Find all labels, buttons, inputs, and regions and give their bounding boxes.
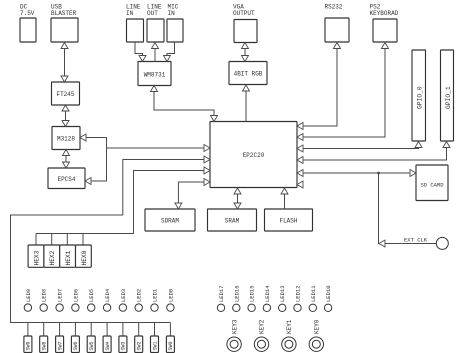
svg-text:LED14: LED14 (264, 285, 271, 302)
svg-text:KEYBORAD: KEYBORAD (370, 10, 399, 17)
arrow into PS2 KEYBORAD (382, 43, 389, 49)
connector PS2 keyboard port (373, 19, 397, 42)
arrow into EP2C20 left 2 (204, 156, 210, 163)
svg-text:HEX2: HEX2 (49, 250, 56, 265)
arrow into FT245 bottom (62, 105, 69, 111)
arrow into WM8731 top right (164, 56, 171, 62)
wire M3128-EPCS4 config loop (80, 138, 107, 182)
arrow into SRAM (234, 203, 241, 209)
svg-text:SDRAM: SDRAM (161, 218, 179, 225)
arrow into EP2C20 bottom from FLASH (281, 188, 288, 194)
svg-text:LED2: LED2 (136, 289, 143, 302)
LED indicator LED14 (263, 304, 270, 311)
connector RS232 port (325, 18, 349, 42)
svg-text:LED1: LED1 (152, 288, 159, 302)
display HEX1 (60, 245, 76, 267)
svg-text:KEY0: KEY0 (314, 319, 321, 334)
arrow into M3128 bottom (63, 150, 70, 156)
wire stub to SW0 (169, 323, 171, 337)
arrow into EP2C20 left 4 (204, 179, 210, 186)
memory FLASH (265, 209, 313, 231)
svg-text:LED9: LED9 (25, 289, 32, 302)
svg-text:SRAM: SRAM (225, 218, 240, 225)
arrow into EP2C20 bottom (234, 188, 241, 194)
header GPIO_1 (441, 50, 454, 141)
svg-text:SD CARD: SD CARD (420, 182, 444, 189)
arrow into EP2C20 right 2 (297, 134, 303, 141)
svg-text:HEX3: HEX3 (33, 250, 40, 265)
LED indicator LED16 (233, 304, 240, 311)
wire VGA to 4BIT RGB (244, 43, 246, 62)
arrow into WM8731 bottom (151, 86, 158, 92)
wire FLASH to EP2C20 (284, 188, 286, 209)
wire EP2C20 to 4BIT RGB (245, 85, 247, 122)
wire stub to SW4 (106, 323, 108, 337)
connector J1 DC power jack (20, 18, 36, 42)
wire stub to HEX1 (66, 234, 68, 246)
chip FT245 (52, 82, 80, 105)
wire stub to SW2 (138, 323, 140, 337)
arrow into 4BIT RGB bottom (243, 85, 250, 91)
svg-text:M3128: M3128 (57, 136, 75, 143)
wire stub to SW3 (122, 323, 124, 337)
svg-text:LED11: LED11 (310, 285, 317, 302)
CPLD M3128 (52, 127, 80, 150)
svg-text:LED10: LED10 (325, 285, 332, 302)
display HEX2 (44, 245, 60, 267)
svg-text:EPCS4: EPCS4 (57, 176, 75, 183)
wire config to EP2C20 (107, 147, 211, 149)
wire stub to HEX2 (51, 234, 53, 246)
switch SW5 (87, 336, 95, 353)
wire FT245 to M3128 (65, 105, 67, 127)
arrow into M3128 top (62, 121, 69, 127)
arrow into GPIO_1 (443, 142, 450, 148)
svg-text:KEY3: KEY3 (231, 319, 238, 334)
wire stub to SW9 (27, 323, 29, 337)
arrow into EP2C20 top (211, 116, 218, 122)
LED indicator LED6 (72, 304, 79, 311)
LED indicator LED5 (88, 304, 95, 311)
switch SW4 (103, 336, 111, 353)
connector MIC IN jack (167, 19, 183, 42)
connector USB BLASTER port (51, 18, 78, 42)
header GPIO_0 (412, 50, 426, 141)
wire M3128 to EPCS4 (65, 150, 67, 169)
svg-text:LED5: LED5 (88, 289, 95, 302)
connector LINE OUT jack (147, 19, 164, 42)
wire MIC IN to WM8731 (167, 42, 175, 62)
LED indicator LED0 (167, 304, 174, 311)
push button KEY0 (309, 337, 323, 351)
arrow into EP2C20 right 5 (297, 170, 303, 177)
svg-text:SW8: SW8 (42, 341, 48, 350)
svg-text:GPIO_1: GPIO_1 (445, 86, 452, 109)
push button KEY3 (227, 337, 241, 351)
LED indicator LED1 (151, 304, 158, 311)
svg-text:SW5: SW5 (89, 341, 95, 350)
LED indicator LED15 (248, 304, 255, 311)
switch SW8 (40, 336, 48, 353)
wire EP2C20 to SD CARD (297, 172, 416, 174)
LED indicator LED3 (119, 304, 126, 311)
svg-text:OUTPUT: OUTPUT (233, 10, 255, 17)
svg-text:IN: IN (168, 10, 176, 17)
svg-text:HEX1: HEX1 (65, 250, 72, 265)
svg-text:LED17: LED17 (218, 285, 225, 302)
push button KEY2 (254, 337, 268, 351)
svg-text:LED3: LED3 (120, 289, 127, 302)
wire stub to SW7 (59, 323, 61, 337)
arrow EXT CLK into node (379, 240, 385, 247)
svg-text:EP2C20: EP2C20 (243, 152, 265, 159)
svg-text:LED12: LED12 (295, 285, 302, 302)
wire EP2C20 to GPIO_0 (297, 142, 419, 149)
wire EP2C20 to RS232 (297, 43, 337, 127)
svg-text:OUT: OUT (147, 10, 158, 17)
wire EP2C20 to SRAM (237, 188, 239, 209)
wire LINE IN to WM8731 (135, 42, 143, 62)
arrow into GPIO_0 (415, 142, 422, 148)
arrow into EP2C20 left 3 (204, 167, 210, 174)
svg-text:LED4: LED4 (104, 288, 111, 302)
LED indicator LED13 (279, 304, 286, 311)
svg-text:SW2: SW2 (137, 341, 143, 350)
wire EP2C20 to SDRAM (178, 182, 210, 209)
svg-text:LED15: LED15 (249, 285, 256, 302)
switch SW3 (119, 336, 127, 353)
arrow into EP2C20 right 6 (297, 181, 303, 188)
connector LINE IN jack (127, 19, 144, 42)
display HEX3 (28, 245, 44, 267)
LED indicator LED12 (294, 304, 301, 311)
connector VGA OUTPUT (234, 20, 257, 43)
display HEX0 (76, 245, 92, 267)
arrow into SD CARD (410, 170, 416, 177)
DAC 4BIT RGB (229, 62, 267, 85)
svg-text:LED7: LED7 (57, 289, 64, 302)
connector EXT CLK input (436, 237, 448, 249)
arrow into LINE OUT (152, 43, 159, 49)
memory SRAM (208, 209, 257, 231)
arrow into 4BIT RGB top (242, 56, 249, 62)
arrow into EPCS4 right (85, 178, 91, 185)
wire stub to SW1 (154, 323, 156, 337)
switch SW1 (151, 336, 159, 353)
switch SW7 (56, 336, 64, 353)
arrow into VGA OUTPUT (242, 43, 249, 49)
svg-text:BLASTER: BLASTER (51, 10, 77, 17)
LED indicator LED4 (103, 304, 110, 311)
wire stub to SW6 (74, 323, 76, 337)
svg-text:LED16: LED16 (233, 285, 240, 302)
wire EP2C20 to switch bus (11, 160, 211, 323)
LED indicator LED9 (24, 304, 31, 311)
svg-text:SW0: SW0 (168, 341, 174, 350)
wire EP2C20 to GPIO_1 (297, 142, 447, 161)
svg-text:4BIT RGB: 4BIT RGB (234, 71, 263, 78)
svg-text:FT245: FT245 (56, 91, 74, 98)
wire USB BLASTER to FT245 (64, 43, 66, 83)
switch SW9 (24, 336, 32, 353)
svg-text:RS232: RS232 (325, 4, 343, 11)
svg-text:LED13: LED13 (279, 285, 286, 302)
arrow into EP2C20 right 1 (297, 123, 303, 130)
LED indicator LED7 (56, 304, 63, 311)
svg-text:FLASH: FLASH (279, 218, 297, 225)
wire EXT CLK (379, 173, 437, 244)
svg-text:HEX0: HEX0 (81, 250, 88, 265)
svg-text:LED8: LED8 (41, 289, 48, 302)
slot SD CARD (416, 165, 448, 201)
arrow into EPCS4 top (63, 162, 70, 168)
arrow into EP2C20 right 3 (297, 145, 303, 152)
wire WM8731 to LINE OUT (154, 43, 156, 62)
svg-text:SW6: SW6 (73, 341, 79, 350)
arrow into FT245 (61, 76, 68, 82)
arrow into RS232 (334, 43, 341, 49)
wire EP2C20 to PS2 (297, 43, 385, 138)
svg-text:7.5V: 7.5V (20, 10, 35, 17)
LED indicator LED8 (40, 304, 47, 311)
LED indicator LED11 (309, 304, 316, 311)
arrow into M3128 right (80, 134, 86, 141)
push button KEY1 (282, 337, 296, 351)
config device EPCS4 (48, 168, 85, 189)
wire stub to SW5 (90, 323, 92, 337)
arrow into USB BLASTER (61, 43, 68, 49)
switch SW2 (135, 336, 143, 353)
svg-text:SW9: SW9 (26, 341, 32, 350)
svg-text:GPIO_0: GPIO_0 (416, 86, 423, 109)
wire stub to HEX0 (82, 234, 84, 246)
arrow into SDRAM (175, 203, 182, 209)
svg-text:KEY1: KEY1 (286, 319, 293, 334)
switch SW6 (71, 336, 79, 353)
svg-text:LED0: LED0 (167, 289, 174, 302)
wire stub to HEX3 (35, 234, 37, 246)
svg-text:SW3: SW3 (121, 341, 127, 350)
svg-text:WM8731: WM8731 (144, 72, 166, 79)
wire EP2C20 to HEX bus (36, 171, 210, 234)
svg-text:IN: IN (126, 10, 134, 17)
junction node EXT CLK branch (377, 172, 380, 175)
svg-text:SW4: SW4 (105, 341, 111, 350)
svg-text:LED6: LED6 (72, 289, 79, 302)
arrow into EP2C20 left 1 (204, 145, 210, 152)
LED indicator LED2 (135, 304, 142, 311)
arrow into WM8731 top left (139, 56, 146, 62)
memory SDRAM (145, 209, 195, 231)
codec U-WM8731 (138, 62, 171, 86)
LED indicator LED10 (324, 304, 331, 311)
switch SW0 (166, 336, 174, 353)
wire WM8731 to EP2C20 (154, 86, 214, 122)
wire stub to SW8 (43, 323, 45, 337)
svg-text:SW1: SW1 (152, 341, 158, 350)
svg-text:KEY2: KEY2 (259, 319, 266, 334)
LED indicator LED17 (217, 304, 224, 311)
svg-text:SW7: SW7 (57, 341, 63, 350)
svg-text:EXT CLK: EXT CLK (404, 237, 428, 244)
FPGA EP2C20 (210, 122, 297, 188)
arrow into EP2C20 right 4 (297, 157, 303, 164)
